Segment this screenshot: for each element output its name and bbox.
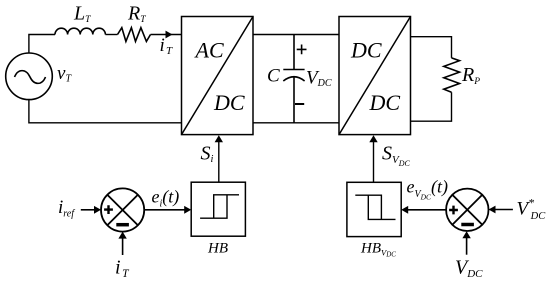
wire load bottom [411,92,452,121]
wire S2 to HB_VDC [408,209,446,211]
wire inductor-resistor [105,34,117,36]
wire i_T feedback [122,238,124,255]
inductor L_T [55,28,105,34]
hysteresis block HB_VDC [347,182,401,236]
capacitor C [283,35,304,123]
resistor R_T [118,28,151,42]
wire S_i [218,141,220,182]
svg-text:DC: DC [213,90,245,115]
wire source-top [29,35,55,54]
wire load top [411,37,452,58]
arrow i_T feedback [118,232,126,239]
arrow V*_DC [489,206,496,214]
summing junction S1 [101,188,144,231]
arrow into HB_VDC [401,206,408,214]
arrow S_VDC [369,135,377,142]
wire V_DC feedback [466,238,468,255]
arrow i_ref [94,206,101,214]
svg-text:DC: DC [369,90,401,115]
arrow i_T [166,31,173,39]
minus (S1) [116,223,129,227]
wire resistor to converter with current arrow i_T [151,34,182,36]
svg-text:C: C [267,66,280,87]
ac source v_T [6,53,53,100]
wire dc-link top [253,34,339,36]
svg-text:AC: AC [194,38,224,63]
minus (S2) [461,223,474,227]
wire i_ref to S1 [81,209,94,211]
svg-text:ei(t): ei(t) [152,187,180,210]
wire S1 to HB [144,209,184,211]
svg-text:HB: HB [207,240,228,256]
plus (cap) [297,45,307,55]
wire dc-link bottom [253,122,339,124]
wire V*_DC to S2 [496,209,513,211]
svg-text:DC: DC [350,38,382,63]
hysteresis block HB [191,182,245,236]
arrow into HB [184,206,191,214]
hysteresis symbol (HB) [200,195,239,218]
resistor R_P [444,58,460,92]
wire S_VDC [373,141,375,182]
converter U1 AC/DC [182,17,254,135]
wire source-bottom [29,100,182,123]
arrow S_i [215,135,223,142]
plus (S2) [449,206,458,215]
hysteresis symbol (HB_VDC, mirrored) [355,195,395,219]
arrow V_DC feedback [462,231,470,238]
summing junction S2 [446,189,488,231]
converter U2 DC/DC [339,17,411,135]
plus (S1) [104,205,113,214]
minus (cap) [295,103,304,105]
